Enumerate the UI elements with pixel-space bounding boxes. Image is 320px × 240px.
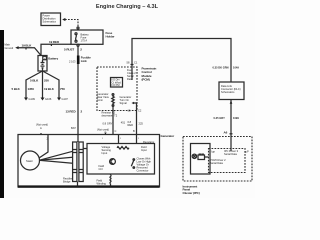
PCM class 2 node [127,67,136,81]
field winding L1 [97,174,112,187]
IPC microprocessor dashed box [205,137,249,173]
regulator resistor [117,147,129,150]
svg-text:C1: C1 [134,61,138,65]
svg-text:0.8 GRY: 0.8 GRY [103,122,113,126]
PCM generator turn on signal node [120,95,137,110]
svg-text:Battery: Battery [48,57,58,61]
wire 13 RED to generator BAT [66,64,83,135]
battery icon [198,155,205,160]
regulator transistor [110,159,116,165]
svg-text:1350: 1350 [28,87,35,91]
wire 19 RED [41,40,71,56]
svg-text:Holder: Holder [106,35,116,39]
svg-text:G107: G107 [62,97,69,101]
svg-text:Bridge: Bridge [63,180,71,184]
svg-text:(Not used): (Not used) [36,123,48,127]
IPC dashed box [183,137,253,195]
wire 0.8 GRY 451 pin C [103,106,126,135]
PCM internal reference table [111,78,123,88]
PCM dashed box [97,67,156,111]
svg-text:BAT: BAT [71,126,76,130]
svg-text:Engine Charging – 4.3L: Engine Charging – 4.3L [96,4,159,10]
svg-text:5 BLK: 5 BLK [30,79,39,83]
svg-text:C: C [115,129,117,133]
fuse holder [71,30,115,46]
svg-text:Input: Input [102,151,108,155]
svg-text:0.35 GRY: 0.35 GRY [214,116,226,120]
svg-text:Signal: Signal [120,101,128,105]
wire dashed power distribution feed [62,18,79,29]
svg-text:(PCM): (PCM) [142,77,150,81]
svg-text:Data: Data [127,77,133,81]
generator box [18,134,175,188]
svg-text:451: 451 [121,120,126,124]
svg-text:Cluster (IPC): Cluster (IPC) [183,191,200,195]
ground G107 [57,97,68,101]
wire 0.35 GRY 1099 [214,100,240,137]
wire 5 RUST [64,46,82,55]
svg-text:decreases T2: decreases T2 [102,114,118,118]
wire 0.8 RED 225 pin B [128,110,144,135]
svg-text:Input: Input [141,148,147,152]
svg-text:5 BLK: 5 BLK [12,87,21,91]
fusible link [69,56,91,65]
main ground arrow [5,43,19,50]
svg-text:19 BLK: 19 BLK [44,87,55,91]
rectifier bridge [63,134,87,187]
wire class 2 serial data [127,39,240,83]
svg-text:175 A: 175 A [81,39,88,43]
svg-text:19 RED: 19 RED [49,40,60,44]
wire 19 BLK [18,43,41,55]
IPC telltale box [191,144,211,175]
svg-text:1049: 1049 [233,66,239,70]
svg-text:5 RUST: 5 RUST [64,48,74,52]
stator [21,135,73,171]
PCM generator rear view note [97,92,109,102]
svg-text:RED: RED [128,123,134,127]
svg-text:Serial Data: Serial Data [224,152,237,156]
svg-text:250: 250 [44,79,49,83]
regulator [87,135,155,175]
svg-text:0.35 DK GRN: 0.35 DK GRN [213,66,229,70]
svg-text:2 103: 2 103 [69,60,76,64]
svg-text:Ign: Ign [212,150,216,154]
svg-text:Ground: Ground [5,46,14,50]
svg-text:µP: µP [246,150,249,154]
generator pin A not used [36,123,49,141]
ground G109 [24,97,35,101]
fuse F1 Battery Fuse 175A [75,33,77,35]
svg-text:Schematics: Schematics [221,90,235,94]
svg-text:Connector: Connector [137,169,149,173]
svg-text:A: A [40,126,42,130]
battery B1 [38,56,58,72]
svg-text:Stator: Stator [26,159,33,163]
svg-text:19 BLK: 19 BLK [22,43,33,47]
svg-text:Winding: Winding [97,182,107,186]
svg-text:Serial Data: Serial Data [210,161,223,165]
charge indicator lamp [192,154,196,158]
ground G106 [41,97,52,101]
svg-text:Ctrl: Ctrl [99,167,103,171]
svg-text:A6: A6 [224,131,228,135]
svg-text:Link: Link [81,59,87,63]
regulator switch [133,159,135,161]
reference box Power Distribution Schematics [41,13,61,26]
svg-text:I/O PM: I/O PM [112,83,120,87]
reference box Data Link Connector [219,82,244,100]
generator pin D not used [97,128,140,140]
svg-text:G106: G106 [45,97,52,101]
wire into microprocessor [230,137,232,152]
svg-text:1099: 1099 [233,116,239,120]
battery ground wires [12,71,66,98]
svg-text:C2: C2 [138,108,142,112]
svg-text:G109: G109 [29,97,36,101]
svg-text:750: 750 [60,87,65,91]
PCM resistor note [102,108,142,117]
svg-text:13 RED: 13 RED [66,110,77,114]
svg-text:Schematics: Schematics [43,20,57,24]
svg-text:Conn: Conn [97,98,104,102]
svg-text:B: B [133,129,135,133]
resistor R2 [112,94,114,107]
svg-text:Generator: Generator [161,134,176,138]
pin 2 [77,44,79,46]
svg-text:225: 225 [139,122,144,126]
svg-text:(Not used): (Not used) [97,128,109,132]
